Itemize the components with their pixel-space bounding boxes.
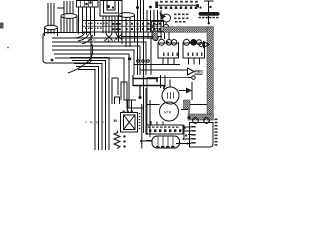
wire into compressor left: [144, 75, 147, 133]
svg-text:E A D: E A D: [88, 38, 96, 42]
wire bundle top-left: [48, 3, 54, 26]
wire h4: [52, 50, 134, 75]
stair bar 2: [133, 86, 164, 90]
wire to band: [181, 109, 188, 111]
RB1 coil circles: [159, 39, 177, 45]
connector circle K: [192, 76, 196, 80]
heater box X: [121, 113, 138, 133]
MBC sub mark: [195, 74, 203, 75]
wire h1: [52, 38, 151, 75]
wire Y-split 1: [106, 32, 112, 40]
RB1 contact marks: [163, 53, 178, 57]
motor circle M2: [160, 102, 179, 121]
stair vertical: [133, 75, 140, 98]
compressor enclosure left: [146, 78, 148, 136]
wire bundle TB0 to TB1: [79, 7, 95, 36]
fuse bar F1: [199, 12, 220, 16]
TB0 dots: [85, 1, 92, 5]
node dot corner: [208, 22, 210, 24]
wire h5: [54, 54, 143, 108]
wire bundle above P2: [64, 1, 73, 14]
wire below strip: [121, 36, 162, 38]
stair bar 1: [133, 79, 157, 83]
connector P3 (cylinder): [119, 13, 135, 47]
connector P2 (cylinder): [61, 14, 77, 33]
bar label marks: [160, 1, 198, 3]
terminal dots row: [113, 23, 161, 30]
bar end bracket: [155, 2, 158, 9]
dotted column: [139, 113, 141, 130]
resistor dots: [123, 135, 125, 147]
bell lower circle: [163, 25, 169, 31]
CTS stubs up: [151, 121, 163, 125]
connector CN1 nested: [100, 1, 122, 17]
margin mark 1: [0, 23, 4, 29]
connector P1 (cylinder): [45, 25, 58, 36]
band circle 1: [193, 118, 199, 124]
hook dash: [146, 140, 153, 142]
band circle 2: [204, 118, 210, 124]
wire h10: [76, 67, 99, 151]
node dot in TSTAT: [51, 59, 54, 62]
wire M1 right: [179, 90, 186, 92]
wire fan curve 1: [75, 33, 85, 38]
wire stubs below TB1 right: [138, 32, 170, 75]
wire h6: [55, 58, 136, 100]
plug left dot: [140, 140, 143, 143]
T mark: [210, 6, 212, 8]
heater top marks: [123, 111, 134, 112]
pilot box: [152, 22, 164, 32]
resistor R1: [114, 131, 120, 149]
svg-text:MBC: MBC: [195, 69, 204, 74]
terminal strip TB1: [83, 21, 164, 33]
hatch band bottom: [188, 114, 213, 120]
plug inner wires: [158, 137, 173, 148]
wire right vertical: [191, 82, 193, 100]
wire h7: [70, 58, 109, 151]
wire bundle right mid: [147, 10, 161, 32]
bell flag: [160, 12, 167, 20]
wire h into M2: [146, 104, 160, 106]
wire fan curve 2: [78, 34, 89, 41]
wire h2: [52, 42, 146, 75]
CN1 dot: [107, 5, 110, 8]
hatch stub left: [153, 32, 158, 40]
MBC arrow: [188, 68, 195, 75]
bell label marks: [174, 14, 189, 23]
top box TB0: [77, 1, 99, 8]
compressor enclosure top: [147, 77, 188, 79]
wire n-loop: [121, 82, 140, 108]
TB1 label text rows: [85, 23, 108, 29]
wire fan curve 3: [82, 35, 93, 44]
wire h11: [78, 70, 95, 151]
node dot stair: [138, 96, 141, 99]
RB2 coil circles: [184, 39, 202, 45]
BRBOX stubs left: [176, 127, 191, 144]
wire bracket: [57, 8, 64, 22]
relay RB1: [158, 43, 179, 58]
relay stubs down: [163, 58, 200, 65]
hatch band right: [207, 27, 213, 120]
hatch block small: [184, 100, 191, 109]
wire v bottom center 2: [149, 100, 151, 137]
wire into heater 1: [127, 100, 129, 113]
bell B1: [163, 14, 171, 22]
wire to MBC upper: [134, 64, 180, 66]
svg-text:I N C F: I N C F: [86, 121, 106, 125]
M1 inner marks: [168, 92, 174, 99]
bar terminal squares: [160, 6, 197, 9]
node mark: [128, 58, 131, 61]
wire fuse to hatch: [208, 16, 210, 23]
blob mark: [197, 4, 200, 8]
RB2 contact marks: [188, 53, 203, 57]
CTS right dots: [183, 127, 188, 145]
wire h9: [74, 64, 102, 151]
node dot: [136, 6, 139, 9]
node dots 000: [137, 60, 140, 63]
arrow connector right: [199, 42, 209, 48]
plug bottom marks: [156, 146, 175, 148]
wire block down: [188, 109, 190, 115]
overload plug: [152, 136, 180, 148]
wire h8: [72, 61, 106, 151]
CTS right wire: [183, 125, 185, 140]
hatch band top: [163, 27, 213, 33]
arrow triangle right: [186, 88, 192, 94]
svg-text:B A D C: B A D C: [104, 39, 117, 43]
wire Y-split 2: [116, 32, 122, 40]
wire into heater 2: [131, 100, 133, 113]
bar end dot: [199, 6, 201, 8]
compressor terminal strip CTS: [146, 125, 183, 134]
wire into M1 top: [169, 80, 171, 88]
antenna T: [204, 1, 214, 12]
wire h13: [115, 97, 120, 104]
pilot circle 1: [153, 24, 158, 29]
wire loop arc: [68, 44, 93, 73]
node dot 2: [149, 6, 152, 9]
thermostat box TSTAT: [43, 33, 91, 64]
wire bell down: [165, 23, 167, 25]
BRBOX rows: [191, 126, 196, 144]
relay RB2: [183, 43, 205, 58]
wire to connector K: [188, 77, 192, 79]
wire to MBC lower: [140, 69, 187, 71]
CTS label marks: [148, 127, 179, 128]
wire bundle CN1 to TB1: [103, 16, 118, 33]
pilot circle 2: [153, 35, 158, 40]
top right terminal bar: [159, 4, 200, 6]
wire to hatch right: [190, 104, 207, 106]
BRBOX stub dots: [179, 126, 186, 145]
band dot: [187, 116, 190, 119]
motor circle M1: [162, 87, 179, 104]
CTS terminal dots: [149, 129, 181, 132]
TB1 midline: [83, 25, 164, 27]
junction box BRBOX: [190, 123, 214, 148]
wire bundle right top: [138, 0, 144, 32]
wire compressor top feeds: [161, 75, 166, 88]
CN1 mark: [112, 7, 114, 9]
margin dot: [7, 47, 9, 49]
RB1 node dot: [166, 41, 168, 43]
wire v bottom center 1: [141, 104, 143, 149]
plug left lead: [143, 140, 152, 142]
legend column: [215, 119, 218, 146]
fuse label marks: [199, 17, 219, 19]
heater inner X: [124, 115, 136, 130]
CTS right dash: [188, 134, 194, 136]
wire h12: [112, 78, 118, 104]
svg-text:MTR: MTR: [164, 111, 172, 115]
wire h3: [52, 46, 140, 75]
